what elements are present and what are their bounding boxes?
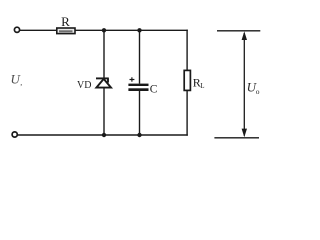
node (junction dot, bottom of VD) [102, 133, 106, 137]
wire [103, 88, 105, 135]
input terminal bottom [12, 132, 17, 137]
resistor R [57, 28, 75, 34]
node (junction dot, top of C) [137, 28, 141, 32]
svg-text:o: o [256, 87, 260, 96]
wire (bottom rail) [17, 134, 188, 136]
plus sign for capacitor polarity [130, 79, 135, 81]
svg-text:VD: VD [77, 80, 91, 91]
wire [139, 30, 141, 83]
wire [75, 29, 188, 31]
node (junction dot, top of VD) [102, 28, 106, 32]
wire [186, 90, 188, 135]
wire [186, 30, 188, 71]
resistor RL [184, 70, 190, 90]
wire [20, 29, 57, 31]
wire [103, 30, 105, 78]
capacitor C (electrolytic, polarized) [128, 84, 148, 86]
svg-text:C: C [150, 84, 158, 96]
output measurement ticks and arrow Uo [217, 30, 260, 32]
svg-text:R: R [61, 14, 70, 29]
svg-text:,: , [20, 78, 22, 87]
zener diode VD [96, 78, 111, 87]
node (junction dot, bottom of C) [137, 133, 141, 137]
wire [139, 91, 141, 135]
svg-text:L: L [200, 82, 204, 90]
input terminal top [14, 27, 19, 32]
